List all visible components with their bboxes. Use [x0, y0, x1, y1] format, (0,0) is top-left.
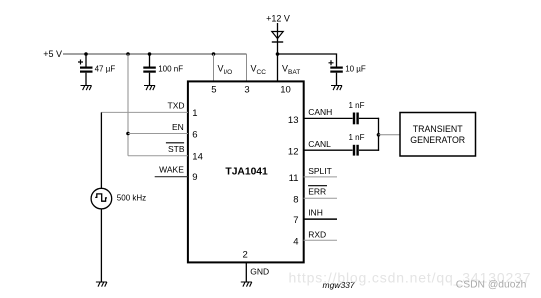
svg-text:CANH: CANH — [308, 107, 332, 117]
pin label EN — [172, 122, 184, 132]
watermark url — [289, 270, 532, 286]
pin number 14 — [192, 152, 203, 163]
watermark CSDN — [456, 279, 527, 290]
svg-text:CANL: CANL — [308, 139, 331, 149]
svg-text:500 kHz: 500 kHz — [117, 193, 146, 202]
pin label TXD — [168, 101, 185, 111]
svg-text:+12 V: +12 V — [266, 13, 290, 23]
ground below C1 — [81, 86, 92, 91]
svg-text:12: 12 — [288, 147, 299, 158]
diode D1 — [272, 32, 283, 43]
pin label VI/O — [218, 64, 233, 76]
ground below GND pin — [241, 282, 252, 287]
svg-text:1 nF: 1 nF — [348, 133, 364, 142]
pin number 12 — [288, 147, 299, 158]
svg-text:GND: GND — [250, 267, 269, 277]
wire VCC pin branch — [246, 54, 248, 81]
svg-text:10 µF: 10 µF — [345, 65, 366, 74]
wire CANL cap to corner — [359, 149, 379, 151]
wire SPLIT stub — [304, 176, 338, 178]
junction dot EN branch — [126, 132, 130, 136]
pin number 11 — [289, 173, 299, 184]
svg-text:WAKE: WAKE — [159, 165, 184, 175]
pin label WAKE — [159, 165, 184, 175]
pin number 2 — [243, 249, 248, 260]
svg-text:TRANSIENT: TRANSIENT — [413, 124, 463, 134]
pin label CANL — [308, 139, 331, 149]
wire EN horizontal — [128, 133, 188, 135]
svg-text:13: 13 — [288, 115, 299, 126]
svg-text:5: 5 — [211, 85, 216, 96]
wire C1 top lead — [85, 54, 87, 67]
ground below generator — [96, 282, 107, 287]
value label 47 uF — [95, 65, 116, 74]
svg-text:1: 1 — [192, 108, 197, 119]
wire to transient generator — [379, 134, 401, 136]
pin label VBAT — [282, 64, 300, 76]
wire VBAT to C3 — [278, 54, 337, 67]
figure id mgw337 — [323, 280, 355, 290]
junction dot rail at C2 — [148, 52, 152, 56]
svg-text:10: 10 — [280, 85, 291, 96]
capacitor C5 1nF — [354, 145, 358, 156]
node +5V label — [43, 49, 62, 59]
svg-text:INH: INH — [308, 208, 323, 218]
wire VBAT pin branch — [277, 54, 279, 81]
pin label INH — [308, 208, 323, 218]
svg-text:ERR: ERR — [308, 187, 326, 197]
junction dot rail at VI/O branch — [212, 52, 216, 56]
value label 10 uF — [345, 65, 366, 74]
pin number 10 — [280, 85, 291, 96]
signal generator 500kHz — [91, 188, 112, 209]
wire generator to ground — [100, 209, 102, 282]
wire EN/STB vertical branch — [127, 54, 129, 156]
transient generator box — [400, 113, 476, 157]
svg-text:TXD: TXD — [168, 101, 185, 111]
svg-text:6: 6 — [192, 129, 197, 140]
pin number 3 — [244, 85, 249, 96]
pin number 9 — [192, 172, 197, 183]
op-amp U1 TJA1041 IC body — [188, 81, 304, 262]
pin label ERR with overline — [308, 186, 327, 197]
ground below C2 — [144, 86, 155, 91]
pin label STB with overline — [166, 143, 185, 154]
svg-text:1 nF: 1 nF — [348, 101, 364, 110]
svg-text:47 µF: 47 µF — [95, 65, 116, 74]
wire C1 bottom lead — [85, 73, 87, 86]
pin number 13 — [288, 115, 299, 126]
wire C3 bottom lead — [336, 73, 338, 86]
pin number 4 — [293, 237, 298, 248]
wire RXD stub — [304, 239, 338, 241]
pin number 7 — [293, 215, 298, 226]
svg-text:EN: EN — [172, 122, 184, 132]
value label 500 kHz — [117, 193, 146, 202]
wire STB horizontal — [128, 155, 188, 157]
value label 100 nF — [158, 65, 183, 74]
capacitor C2 100nF — [143, 68, 156, 72]
wire CANH/CANL joining vertical — [378, 118, 380, 151]
wire CANH horizontal — [304, 117, 353, 119]
wire C2 top lead — [149, 54, 151, 67]
junction dot rail at EN branch — [126, 52, 130, 56]
value label 1 nF upper — [348, 101, 364, 110]
svg-text:8: 8 — [293, 194, 298, 205]
svg-text:7: 7 — [293, 215, 298, 226]
svg-text:TJA1041: TJA1041 — [225, 167, 268, 178]
wire TXD vertical to generator — [100, 112, 102, 188]
pin label CANH — [308, 107, 332, 117]
svg-text:3: 3 — [244, 85, 249, 96]
svg-text:+5 V: +5 V — [43, 49, 62, 59]
svg-text:2: 2 — [243, 249, 248, 260]
svg-text:GENERATOR: GENERATOR — [410, 135, 465, 145]
svg-text:9: 9 — [192, 172, 197, 183]
pin number 1 — [192, 108, 197, 119]
pin label GND — [250, 267, 269, 277]
pin label SPLIT — [308, 166, 332, 176]
svg-text:RXD: RXD — [308, 230, 326, 240]
svg-text:14: 14 — [192, 152, 203, 163]
wire CANH cap to corner — [359, 117, 379, 119]
pin label RXD — [308, 230, 326, 240]
wire C2 bottom lead — [149, 73, 151, 86]
junction dot transient feed — [377, 133, 381, 137]
wire CANL horizontal — [304, 149, 353, 151]
wire GND pin — [245, 262, 247, 282]
IC name label TJA1041 — [225, 167, 268, 178]
wire +12V to diode — [277, 23, 279, 54]
wire WAKE stub — [155, 176, 188, 178]
wire INH stub — [304, 218, 338, 220]
svg-text:CSDN @duozh: CSDN @duozh — [456, 279, 527, 290]
svg-text:100 nF: 100 nF — [158, 65, 183, 74]
junction dot rail at C1 — [84, 52, 88, 56]
wire ERR stub — [304, 197, 338, 199]
capacitor C3 10uF polarized — [329, 60, 343, 71]
svg-text:11: 11 — [289, 173, 299, 184]
capacitor C1 47uF polarized — [78, 60, 93, 72]
svg-text:STB: STB — [168, 144, 185, 154]
svg-text:SPLIT: SPLIT — [308, 166, 332, 176]
wire TXD horizontal — [101, 111, 187, 113]
ground below C3 — [331, 86, 342, 91]
wire VI/O pin branch — [213, 54, 215, 81]
label TRANSIENT GENERATOR — [410, 124, 465, 145]
pin number 5 — [211, 85, 216, 96]
value label 1 nF lower — [348, 133, 364, 142]
junction dot VBAT node — [276, 52, 280, 56]
capacitor C4 1nF — [354, 113, 358, 125]
pin number 6 — [192, 129, 197, 140]
svg-text:4: 4 — [293, 237, 298, 248]
pin label VCC — [251, 64, 267, 76]
wire +5V rail — [63, 53, 247, 55]
pin number 8 — [293, 194, 298, 205]
node +12V label — [266, 13, 290, 23]
